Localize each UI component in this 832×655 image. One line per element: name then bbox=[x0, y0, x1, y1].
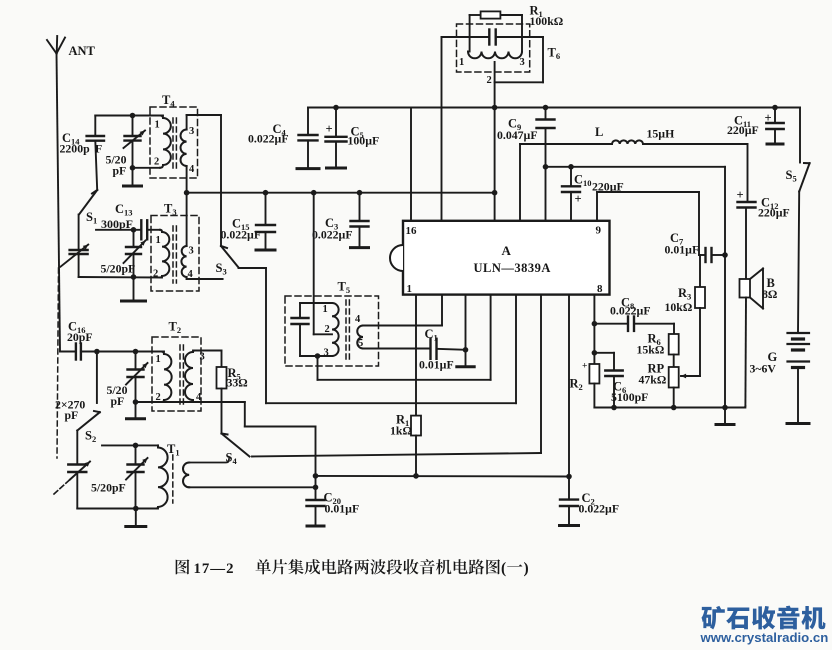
svg-text:www.crystalradio.cn: www.crystalradio.cn bbox=[700, 630, 829, 645]
svg-text:(: ( bbox=[501, 560, 506, 577]
node T1 tank bottom bbox=[133, 506, 139, 512]
node C13 / T3 tank top bbox=[131, 227, 137, 233]
wire S3 to IC pin 5 bbox=[239, 268, 517, 403]
wire S2 contact bbox=[96, 352, 98, 404]
wire T2 bottom to C20 node bbox=[245, 402, 316, 500]
variable capacitor 5/20pF (T2 tank) bbox=[107, 352, 148, 409]
svg-text:2: 2 bbox=[153, 269, 158, 280]
variable capacitor 5/20pF (T4 tank) bbox=[106, 116, 146, 178]
capacitor C10 220uF electrolytic bbox=[562, 167, 624, 221]
transformer T2 secondary winding bbox=[185, 351, 205, 404]
wire T6 pin2 center tap to IC bbox=[494, 62, 496, 221]
svg-text:100kΩ: 100kΩ bbox=[530, 14, 564, 28]
svg-text:220µF: 220µF bbox=[758, 206, 790, 220]
svg-text:A: A bbox=[502, 243, 512, 258]
svg-text:5/20pF: 5/20pF bbox=[101, 262, 136, 276]
svg-text:300pF: 300pF bbox=[101, 217, 133, 231]
transformer T3 secondary winding bbox=[181, 193, 222, 280]
wire T6 cap left to IC top pin bbox=[441, 37, 443, 221]
node pin8 C8 bbox=[592, 321, 598, 327]
capacitor C5 100uF electrolytic bbox=[326, 108, 380, 169]
svg-text:0.022µF: 0.022µF bbox=[248, 132, 289, 146]
ground (pin3 node) bbox=[457, 350, 474, 367]
node T4 tank bottom bbox=[130, 165, 136, 171]
svg-text:3: 3 bbox=[189, 126, 194, 137]
speaker B 8ohm bbox=[740, 269, 778, 309]
node C16 / S2 bbox=[94, 349, 100, 355]
svg-text:+: + bbox=[575, 192, 582, 206]
svg-text:2: 2 bbox=[325, 324, 330, 335]
watermark url bbox=[700, 630, 829, 645]
svg-text:ULN—3839A: ULN—3839A bbox=[474, 261, 551, 275]
node rail C11 bbox=[772, 105, 778, 111]
node rail C9 bbox=[543, 105, 549, 111]
svg-text:1kΩ: 1kΩ bbox=[390, 424, 412, 438]
wire T5 pin5 to C1 bbox=[363, 348, 430, 350]
wire T2 pin3 to R5 bbox=[193, 351, 222, 368]
variable capacitor 2x270pF upper gang section bbox=[61, 215, 89, 278]
node rail T6 pin2 bbox=[492, 105, 498, 111]
resistor R1 1k (bottom) bbox=[390, 413, 421, 476]
switch S1 bbox=[79, 190, 97, 226]
node det C2 bbox=[566, 474, 572, 480]
node rail C5 bbox=[333, 105, 339, 111]
resistor R3 10k bbox=[665, 255, 706, 376]
node C20 top bbox=[313, 485, 319, 491]
wire T1 tank bottom bbox=[77, 508, 158, 510]
wire IC pin1 down bbox=[415, 295, 417, 416]
svg-text:8Ω: 8Ω bbox=[762, 287, 777, 301]
wire T1 tank top bbox=[102, 444, 158, 446]
svg-text:pF: pF bbox=[65, 408, 79, 422]
variable capacitor 2x270pF lower gang section bbox=[54, 398, 90, 509]
switch S4 bbox=[222, 434, 250, 467]
svg-text:9: 9 bbox=[596, 225, 602, 237]
wire IC pin16 to Vcc rail bbox=[410, 108, 412, 221]
transformer T4 secondary winding bbox=[181, 115, 195, 193]
capacitor C4 0.022uF bbox=[248, 108, 319, 169]
wire IC pin8 down bbox=[593, 295, 595, 364]
wire C16 node to T2 top bbox=[97, 351, 164, 353]
transformer T5 primary winding bbox=[318, 303, 339, 359]
wire T4 secondary top to S3 bbox=[187, 115, 221, 246]
wire detector line bbox=[316, 475, 570, 478]
caption title bbox=[256, 559, 529, 577]
node C10 top bbox=[568, 164, 574, 170]
capacitor C16 20pF bbox=[60, 320, 97, 360]
svg-text:1: 1 bbox=[407, 283, 413, 295]
svg-text:100µF: 100µF bbox=[348, 134, 380, 148]
svg-text:4: 4 bbox=[189, 164, 195, 175]
svg-text:15kΩ: 15kΩ bbox=[637, 343, 665, 357]
transformer T6 winding bbox=[459, 52, 525, 87]
svg-text:4: 4 bbox=[355, 314, 361, 325]
svg-text:): ) bbox=[524, 560, 529, 577]
node ground bus right bbox=[722, 405, 728, 411]
resistor R5 33ohm bbox=[217, 366, 248, 434]
svg-text:4: 4 bbox=[188, 269, 194, 280]
ground (output node) bbox=[716, 423, 734, 426]
capacitor C7 0.01uF bbox=[665, 231, 726, 262]
transformer T3 primary winding bbox=[153, 230, 169, 280]
variable capacitor 5/20pF (T3 tank) bbox=[101, 230, 146, 277]
svg-text:0.01µF: 0.01µF bbox=[665, 243, 700, 257]
capacitor C1 0.01uF bbox=[419, 327, 466, 372]
svg-text:+: + bbox=[737, 188, 744, 202]
capacitor C8 0.022uF bbox=[594, 296, 674, 331]
capacitor C20 0.01uF bbox=[307, 491, 360, 527]
svg-text:pF: pF bbox=[113, 164, 127, 178]
node bus IC pin bbox=[492, 190, 498, 196]
svg-text:F: F bbox=[95, 141, 102, 155]
switch S2 bbox=[77, 411, 100, 444]
transformer T2 primary winding bbox=[156, 352, 172, 404]
wire IC pin9 to C7 bbox=[597, 192, 699, 255]
node bus RP bbox=[671, 405, 677, 411]
transformer T1 core bbox=[167, 442, 180, 503]
svg-text:20pF: 20pF bbox=[67, 330, 93, 344]
svg-text:220µF: 220µF bbox=[727, 123, 759, 137]
node bus C3 bbox=[357, 190, 363, 196]
node C9 bottom bbox=[543, 164, 549, 170]
wire Vcc rail bbox=[308, 107, 800, 109]
svg-text:16: 16 bbox=[406, 225, 418, 237]
transformer T4 core bbox=[173, 118, 176, 172]
svg-text:2: 2 bbox=[487, 75, 492, 86]
svg-text:pF: pF bbox=[111, 394, 125, 408]
node T2 tank top bbox=[133, 349, 139, 355]
transformer T5 secondary winding bbox=[355, 314, 363, 349]
svg-text:3: 3 bbox=[189, 246, 194, 257]
wire IC pin3 down bbox=[465, 295, 467, 350]
svg-text:5100pF: 5100pF bbox=[611, 390, 648, 404]
capacitor C2 0.022uF bbox=[560, 295, 620, 526]
battery G 3-6V bbox=[750, 192, 810, 424]
svg-text:3~6V: 3~6V bbox=[750, 362, 777, 376]
transformer T4 primary winding bbox=[133, 116, 171, 168]
wire T5 bottom to IC pin4 bbox=[318, 295, 491, 380]
node T3 tank bottom bbox=[131, 274, 137, 280]
node T5 primary bottom bbox=[315, 353, 321, 359]
node bus T3/T4 bbox=[184, 190, 190, 196]
svg-text:15µH: 15µH bbox=[647, 127, 675, 141]
wire speaker to ground bus bbox=[744, 298, 747, 408]
node C7 right bbox=[722, 252, 728, 258]
resistor R6 15k bbox=[637, 324, 679, 367]
svg-text:8: 8 bbox=[597, 283, 603, 295]
capacitor C11 220uF electrolytic bbox=[727, 108, 784, 145]
svg-text:1: 1 bbox=[323, 304, 328, 315]
transformer T3 box bbox=[151, 202, 199, 292]
svg-text:47kΩ: 47kΩ bbox=[639, 373, 667, 387]
capacitor C6 5100pF bbox=[594, 353, 648, 408]
potentiometer RP 47k bbox=[639, 362, 679, 408]
wire IC pin6 to S4 bbox=[252, 295, 541, 457]
svg-text:+: + bbox=[582, 362, 587, 372]
transformer T1 primary winding bbox=[156, 445, 168, 508]
svg-text:+: + bbox=[765, 111, 772, 125]
transformer T2 box bbox=[152, 320, 201, 412]
switch S3 bbox=[216, 246, 239, 277]
svg-text:L: L bbox=[595, 125, 603, 139]
transformer T3 core bbox=[173, 226, 176, 283]
wire bus to T5 tap bbox=[314, 193, 332, 335]
svg-text:3: 3 bbox=[324, 348, 329, 359]
svg-text:33Ω: 33Ω bbox=[227, 376, 248, 390]
ground (T2 tank) bbox=[127, 402, 145, 419]
svg-text:0.047µF: 0.047µF bbox=[497, 128, 538, 142]
svg-text:0.01µF: 0.01µF bbox=[419, 358, 454, 372]
resistor R1 100k bbox=[470, 4, 564, 52]
ground (T3 tank) bbox=[122, 277, 146, 301]
svg-text:2200p: 2200p bbox=[60, 141, 91, 155]
wire AGC bus bbox=[187, 192, 495, 194]
svg-text:5/20pF: 5/20pF bbox=[91, 481, 126, 495]
svg-text:0.022µF: 0.022µF bbox=[312, 228, 353, 242]
svg-text:1: 1 bbox=[156, 235, 161, 246]
mechanical gang dashed link bbox=[57, 268, 59, 458]
variable capacitor 5/20pF (T1 tank) bbox=[91, 445, 148, 508]
capacitor inside T6 bbox=[442, 30, 544, 83]
ground (T1 tank) bbox=[126, 509, 146, 527]
capacitor inside T5 bbox=[292, 303, 333, 356]
transformer T5 box bbox=[285, 280, 379, 367]
capacitor C3 0.022uF bbox=[312, 193, 369, 248]
svg-text:2: 2 bbox=[154, 157, 159, 168]
node det R1 bbox=[413, 473, 419, 479]
wire ground bus bottom bbox=[594, 407, 745, 409]
node det T1 bbox=[313, 473, 319, 479]
wire decoupling node rail bbox=[546, 167, 726, 425]
svg-text:10kΩ: 10kΩ bbox=[665, 300, 693, 314]
node pin8 C6 bbox=[592, 350, 598, 356]
wire RP wiper arrow bbox=[681, 374, 700, 379]
transformer T6 box bbox=[457, 24, 561, 72]
svg-text:5: 5 bbox=[358, 338, 363, 349]
svg-text:0.022µF: 0.022µF bbox=[610, 304, 651, 318]
node bus T5 tap bbox=[311, 190, 317, 196]
capacitor C14 2200pF bbox=[60, 116, 105, 191]
op-amp IC A ULN-3839A bbox=[390, 221, 610, 295]
antenna ANT bbox=[47, 36, 96, 352]
svg-text:3: 3 bbox=[520, 57, 525, 68]
node T4 tank top bbox=[130, 113, 136, 119]
transformer T1 pickup winding bbox=[183, 459, 316, 487]
node T1 tank top bbox=[133, 443, 139, 449]
watermark site name bbox=[701, 606, 825, 630]
wire left tank bottom to T3 bottom node bbox=[79, 276, 162, 279]
node bus C15 bbox=[263, 190, 269, 196]
capacitor C15 0.022uF bbox=[221, 193, 276, 250]
node C1 / IC pin3 bbox=[463, 347, 469, 353]
node bus C6 bbox=[611, 405, 617, 411]
wire T5 pin4 to IC pin2 bbox=[363, 295, 442, 326]
switch S5 power bbox=[786, 108, 810, 192]
capacitor C9 0.047uF bbox=[497, 108, 555, 221]
caption figure number bbox=[176, 559, 235, 577]
svg-text:ANT: ANT bbox=[69, 44, 96, 58]
wire T2 bottom bbox=[136, 401, 245, 403]
ground (T4 tank) bbox=[124, 168, 142, 186]
svg-text:0.022µF: 0.022µF bbox=[579, 502, 620, 516]
svg-text:+: + bbox=[326, 122, 333, 136]
transformer T5 core bbox=[346, 300, 349, 360]
svg-text:1: 1 bbox=[459, 57, 464, 68]
svg-text:1: 1 bbox=[156, 354, 161, 365]
svg-text:3: 3 bbox=[200, 352, 205, 363]
wire antenna top node to C14 and T4 tank bbox=[95, 115, 163, 117]
svg-text:0.022µF: 0.022µF bbox=[221, 228, 262, 242]
resistor R2 bbox=[570, 362, 600, 408]
svg-text:0.01µF: 0.01µF bbox=[325, 502, 360, 516]
svg-text:1: 1 bbox=[155, 120, 160, 131]
capacitor C13 300pF bbox=[96, 202, 160, 239]
svg-text:17—2: 17—2 bbox=[194, 561, 235, 577]
transformer T2 core bbox=[180, 345, 183, 408]
transformer T4 box bbox=[150, 93, 198, 178]
inductor L 15uH bbox=[520, 125, 748, 221]
node T2 tank bottom bbox=[133, 399, 139, 405]
capacitor C12 220uF electrolytic bbox=[737, 144, 790, 279]
